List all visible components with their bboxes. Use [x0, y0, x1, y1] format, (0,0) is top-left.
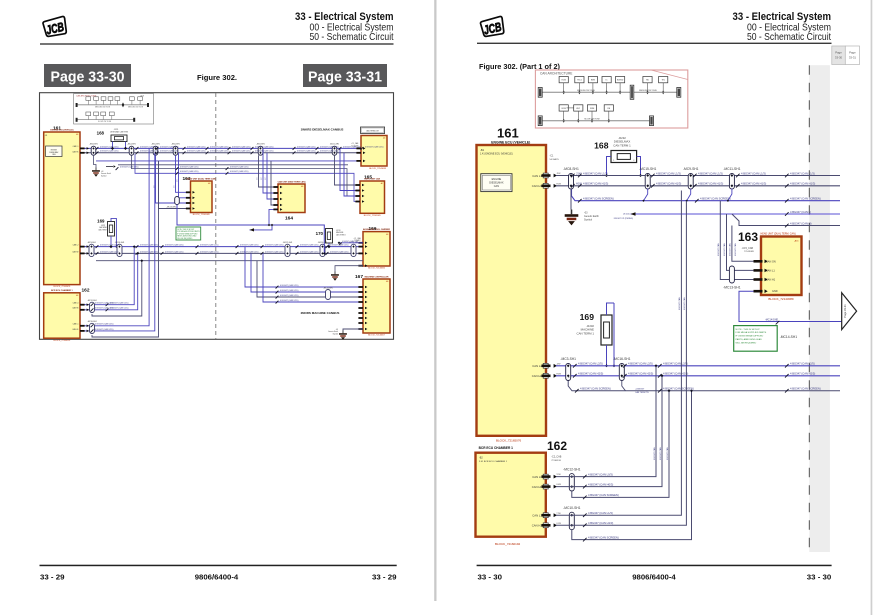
svg-text:Symbol: Symbol [333, 333, 339, 335]
svg-text:Page: Page [835, 51, 842, 55]
svg-text:4 BG347 (CAN L2/5): 4 BG347 (CAN L2/5) [200, 250, 219, 253]
wire CAN H1 bus (left) [80, 152, 361, 154]
svg-text:Symbol: Symbol [101, 175, 107, 177]
connector -MC10 (left 162b) [90, 323, 95, 333]
connector -MC5-SH1 (left top bus) [153, 146, 158, 155]
junction MC16 drop [613, 303, 615, 366]
pin arrows 161 top [80, 148, 85, 150]
svg-text:CAN H0: CAN H0 [72, 307, 78, 310]
page divider [434, 0, 436, 601]
svg-text:4 BG347 (CAN L2/5): 4 BG347 (CAN L2/5) [255, 150, 274, 153]
svg-text:BLOCK_72143065: BLOCK_72143065 [364, 215, 382, 217]
bundle to 164 [259, 155, 279, 187]
svg-text:4 BG347 (CAN L2/5): 4 BG347 (CAN L2/5) [140, 244, 159, 247]
svg-text:4 BG347 (CAN H2/5): 4 BG347 (CAN H2/5) [628, 372, 653, 376]
svg-text:-R231: -R231 [114, 129, 119, 131]
svg-text:4 BG347 (CAN L2/5): 4 BG347 (CAN L2/5) [300, 244, 319, 247]
figure frame [40, 93, 394, 340]
svg-text:BLOCK_72143067: BLOCK_72143067 [368, 335, 386, 337]
left page JCB logo + header [42, 16, 68, 38]
svg-text:4 BG347 (CAN H1/3): 4 BG347 (CAN H1/3) [741, 182, 766, 186]
svg-text:4 BG347 (CAN L2/5): 4 BG347 (CAN L2/5) [232, 145, 251, 148]
wire CAN H0 [556, 376, 662, 487]
wire screen L1 [572, 391, 692, 540]
svg-text:CAN L2: CAN L2 [532, 364, 542, 368]
svg-text:-MC16-SH1: -MC16-SH1 [613, 357, 631, 361]
svg-text:4 BG347 (CAN L1/3): 4 BG347 (CAN L1/3) [583, 171, 608, 175]
wire link to 164 bottom [269, 209, 278, 225]
svg-text:-MC14/GND: -MC14/GND [765, 318, 778, 321]
green note (left page) [176, 227, 201, 240]
svg-text:BLEND: BLEND [617, 80, 624, 82]
svg-text:SLOW CM YDKE: SLOW CM YDKE [98, 121, 112, 123]
svg-text:33 - Electrical System: 33 - Electrical System [295, 11, 394, 23]
svg-text:4 BG347 (CAN L2/5): 4 BG347 (CAN L2/5) [110, 307, 129, 310]
screen dip MC11 [728, 189, 732, 201]
pin 162 y525 [543, 523, 548, 528]
junction 168 drops [111, 147, 114, 150]
svg-text:Page 33-31: Page 33-31 [843, 304, 847, 318]
svg-text:-MC8-SH1: -MC8-SH1 [89, 144, 98, 146]
svg-text:4 BG347 (CAN L2/5): 4 BG347 (CAN L2/5) [165, 250, 184, 253]
svg-text:H1W: H1W [576, 182, 582, 186]
pin 162 y487 [543, 484, 548, 489]
svg-text:CAN H2: CAN H2 [72, 250, 78, 253]
bundle to 165 [335, 155, 361, 185]
block 164 (left page) [278, 184, 305, 213]
svg-text:4 BG347 (CAN L2/5): 4 BG347 (CAN L2/5) [120, 166, 139, 169]
svg-text:H2W: H2W [556, 373, 561, 375]
wire CAN H2 (right) [556, 375, 840, 377]
svg-text:4 BG347 (CAN H1/3): 4 BG347 (CAN H1/3) [588, 521, 613, 525]
screen dip MC9 [687, 189, 691, 201]
svg-text:4 BG347 (CAN H1/3): 4 BG347 (CAN H1/3) [583, 182, 608, 186]
svg-text:Figure 302.: Figure 302. [197, 73, 237, 82]
svg-text:PARTS, ABROGING LEAD: PARTS, ABROGING LEAD [736, 338, 763, 341]
svg-text:-MC15-SH1: -MC15-SH1 [639, 167, 657, 171]
svg-text:4 BG347 CAN: 4 BG347 CAN [734, 243, 737, 256]
svg-text:169: 169 [97, 218, 105, 223]
svg-text:4 BG347 (CAN L2/5): 4 BG347 (CAN L2/5) [187, 145, 206, 148]
svg-text:72143089: 72143089 [744, 251, 755, 253]
wire aux2 (right) [732, 214, 840, 226]
svg-text:-C1_CAB: -C1_CAB [351, 142, 359, 145]
connector -MC8-SH1 (left top bus) [91, 146, 96, 155]
svg-text:4 BG347 (CAN L2/5): 4 BG347 (CAN L2/5) [365, 145, 384, 148]
svg-text:4 BG347 (CAN SCREEN): 4 BG347 (CAN SCREEN) [700, 197, 731, 201]
svg-text:-R233: -R233 [336, 230, 340, 232]
svg-text:4 BG347 (CAN SCREEN): 4 BG347 (CAN SCREEN) [583, 197, 614, 201]
svg-text:4 BG347 (CAN L2/5): 4 BG347 (CAN L2/5) [160, 145, 179, 148]
wire screen2 (right) [568, 381, 840, 391]
svg-text:4 BG347 (CAN L2/5): 4 BG347 (CAN L2/5) [330, 244, 349, 247]
connector -MC13-SH1 [729, 266, 734, 283]
connector -MC15-SH1 [645, 174, 650, 190]
svg-text:-MC13-SH1: -MC13-SH1 [167, 207, 177, 209]
svg-text:4 BG347 (CAN L2/5): 4 BG347 (CAN L2/5) [210, 145, 229, 148]
svg-text:FOR MEGA SUPPLIED PARTS: FOR MEGA SUPPLIED PARTS [736, 331, 767, 334]
svg-text:CAN H1: CAN H1 [532, 184, 543, 188]
svg-text:4 BG347 (CAN L2/5): 4 BG347 (CAN L2/5) [280, 284, 299, 287]
svg-text:33 - Electrical System: 33 - Electrical System [733, 11, 832, 23]
svg-text:ADVANCED TOOL CARRIER: ADVANCED TOOL CARRIER [363, 228, 390, 231]
svg-text:4 BG347 (CAN L2/5): 4 BG347 (CAN L2/5) [300, 250, 319, 253]
pins 162 [80, 304, 85, 306]
svg-text:4 BG347 (CAN L2/5): 4 BG347 (CAN L2/5) [210, 150, 229, 153]
svg-text:4 BG347 CAN: 4 BG347 CAN [728, 243, 731, 256]
svg-text:ENGINE ECU (VEHICLE): ENGINE ECU (VEHICLE) [491, 140, 530, 144]
svg-text:4 BG347 (CAN L2/5): 4 BG347 (CAN L2/5) [200, 244, 219, 247]
junction 169 drop [109, 245, 112, 248]
ground G1 (left) [94, 155, 97, 167]
svg-text:50 - Schematic Circuit: 50 - Schematic Circuit [310, 32, 394, 43]
left footer [40, 565, 397, 567]
connector -MC3-SH1 [566, 364, 571, 381]
svg-text:4 BG347 CAN: 4 BG347 CAN [678, 297, 681, 310]
svg-text:4 BG347 (CAN L2/5): 4 BG347 (CAN L2/5) [330, 250, 349, 253]
svg-text:H1W: H1W [556, 183, 561, 185]
right page edge line [871, 0, 873, 615]
pins 164 [273, 186, 278, 188]
svg-text:4 BG347 CAN: 4 BG347 CAN [717, 243, 720, 256]
svg-text:4 BG347 (CAN L): 4 BG347 (CAN L) [790, 210, 811, 214]
screen dip MC15 [644, 189, 648, 201]
svg-text:BCR ECU CHAMBER 1: BCR ECU CHAMBER 1 [479, 446, 514, 450]
svg-text:CAN L1: CAN L1 [73, 145, 79, 148]
ECU block 162 (left page) [44, 293, 80, 338]
spur arrow (left) [106, 166, 113, 168]
svg-text:-B1: -B1 [45, 135, 48, 137]
svg-text:162: 162 [82, 288, 90, 294]
wire GND 163 [739, 291, 842, 321]
ground G2 (left) [335, 266, 363, 272]
svg-text:4 BG347 (CAN L2/5): 4 BG347 (CAN L2/5) [100, 250, 119, 253]
wire link y225 (left) [177, 205, 324, 254]
svg-text:-MC9-SH1: -MC9-SH1 [683, 167, 699, 171]
pin 163 y280 [754, 278, 763, 281]
wire CAN L2 (right) [556, 365, 840, 367]
svg-text:4 BG347 (CAN H2/5): 4 BG347 (CAN H2/5) [663, 372, 688, 376]
continuation gray band [809, 65, 830, 552]
svg-text:3.41 BCR ECU CHAMBER 1: 3.41 BCR ECU CHAMBER 1 [479, 460, 508, 463]
svg-text:BLOCK_72165076: BLOCK_72165076 [54, 286, 72, 288]
svg-text:4 BG347 (CAN L2/5): 4 BG347 (CAN L2/5) [230, 166, 249, 169]
connector -MC3-SH1 (left bus2) [89, 244, 94, 256]
svg-text:4 BG347 (CAN H2/5): 4 BG347 (CAN H2/5) [790, 372, 815, 376]
pins block A15 [356, 148, 361, 150]
svg-text:-A1: -A1 [380, 182, 383, 185]
pin 163 y270 [754, 269, 763, 272]
svg-text:4 BG347 (CAN L2/5): 4 BG347 (CAN L2/5) [297, 145, 316, 148]
connector -MC8-SH1 [569, 174, 574, 190]
svg-text:CAN H1: CAN H1 [72, 328, 78, 331]
wire CAN L2 bus (left) [80, 246, 363, 248]
green note (right) [734, 326, 778, 352]
svg-text:TEL: TEL [661, 80, 664, 82]
svg-text:4 BG347 CAN: 4 BG347 CAN [666, 447, 669, 460]
band dashed line [808, 65, 810, 552]
svg-text:4 BG347 (CAN L2/5): 4 BG347 (CAN L2/5) [240, 244, 259, 247]
pennant Page 33-31 [842, 293, 857, 330]
wire screen L0 [572, 391, 669, 498]
svg-text:-A1: -A1 [301, 185, 304, 188]
connector -MC11-SH1 [729, 174, 734, 190]
svg-text:4 BG347 (CAN SCREEN): 4 BG347 (CAN SCREEN) [580, 387, 611, 391]
svg-text:4 BG347 (CAN SCREEN): 4 BG347 (CAN SCREEN) [663, 387, 694, 391]
svg-text:BLOCK_72160192: BLOCK_72160192 [495, 542, 521, 546]
svg-text:4 BG347 (CAN L2/5): 4 BG347 (CAN L2/5) [255, 145, 274, 148]
branch run y173 (left) [135, 154, 360, 202]
svg-text:CAN ON: CAN ON [766, 260, 776, 263]
svg-text:163: 163 [738, 230, 758, 244]
svg-text:BLOCK_72143066: BLOCK_72143066 [368, 268, 386, 270]
svg-text:-MC8-SH1: -MC8-SH1 [563, 167, 579, 171]
svg-text:CAN H1: CAN H1 [72, 150, 78, 153]
svg-text:4 BG347 (CAN L2/5): 4 BG347 (CAN L2/5) [95, 328, 114, 331]
wire CAN H2 bus (left) [80, 252, 363, 254]
svg-text:4 BG347 (CAN H1/3): 4 BG347 (CAN H1/3) [698, 182, 723, 186]
svg-text:CAN L1: CAN L1 [532, 174, 542, 178]
right footer [477, 565, 832, 567]
svg-text:-A1: -A1 [208, 182, 211, 185]
svg-text:-MC10-SH1: -MC10-SH1 [318, 242, 328, 244]
svg-text:4 BG347 (CAN L2/5): 4 BG347 (CAN L2/5) [280, 294, 299, 297]
svg-text:CAN L0: CAN L0 [73, 302, 79, 305]
svg-text:-MC9-SH1: -MC9-SH1 [256, 144, 265, 146]
page tabs [832, 46, 846, 65]
svg-text:CAN L1: CAN L1 [73, 323, 79, 326]
wire screen bus A (left) [96, 160, 361, 162]
svg-text:CAN H2: CAN H2 [532, 374, 543, 378]
badge Page 33-31 [303, 64, 387, 87]
svg-text:4 BG347 (CAN L2/5): 4 BG347 (CAN L2/5) [578, 362, 603, 366]
svg-text:-MC3-SH1: -MC3-SH1 [560, 357, 576, 361]
svg-text:MEDIUM CM YDKE: MEDIUM CM YDKE [639, 90, 657, 92]
svg-text:4 BG347 (CAN L2/5): 4 BG347 (CAN L2/5) [100, 145, 119, 148]
svg-text:-MC11-SH1: -MC11-SH1 [723, 167, 740, 171]
wires 162 loop1 [80, 247, 134, 305]
svg-text:-A1: -A1 [76, 294, 79, 297]
svg-text:BLOCK_72143089: BLOCK_72143089 [193, 214, 211, 216]
connector -MC13-SH1 (left bus2) [351, 244, 356, 256]
svg-text:(S:D4): (S:D4) [623, 214, 630, 216]
svg-text:4 BG347 (CAN L0/3): 4 BG347 (CAN L0/3) [588, 472, 613, 476]
wire labels (left page) [91, 145, 384, 332]
svg-text:BLOCK_72143089: BLOCK_72143089 [369, 168, 387, 170]
svg-text:-B1: -B1 [480, 148, 485, 152]
legend box (left page) [361, 127, 385, 134]
pins 166 [358, 242, 363, 244]
svg-text:-MC14-SH1: -MC14-SH1 [323, 287, 333, 289]
inset CAN architecture [74, 94, 154, 124]
wire CAN H1 (right) [556, 185, 840, 187]
pin 161 y186 [543, 183, 548, 188]
svg-text:ENGINE ECU (VEHICLE): ENGINE ECU (VEHICLE) [50, 129, 73, 131]
svg-text:CAN TERM TN: CAN TERM TN [635, 391, 649, 394]
svg-text:J1W: J1W [556, 173, 560, 175]
pin 163 y291 [754, 290, 763, 293]
svg-text:169: 169 [580, 312, 595, 322]
svg-text:-MC6-SH1: -MC6-SH1 [171, 144, 180, 146]
svg-text:4 BG347 (CAN L2/5): 4 BG347 (CAN L2/5) [100, 244, 119, 247]
svg-text:-03: -03 [336, 329, 338, 331]
ground G4 (right) [570, 189, 572, 210]
svg-text:CAN L1: CAN L1 [532, 513, 542, 517]
spur arrow 2 (left) [250, 225, 273, 230]
svg-text:162: 162 [547, 439, 567, 453]
bundle to 167 [245, 247, 363, 287]
svg-text:CAN H1: CAN H1 [766, 279, 776, 282]
svg-text:33-30: 33-30 [835, 56, 843, 60]
svg-text:33 - 30: 33 - 30 [478, 572, 503, 581]
svg-text:170: 170 [316, 231, 324, 236]
svg-text:4 BG347 (CAN L2/5): 4 BG347 (CAN L2/5) [343, 145, 362, 148]
svg-text:EMS: EMS [591, 80, 596, 82]
svg-text:4 BG347 CAN: 4 BG347 CAN [659, 447, 662, 460]
svg-text:4 BG347 (CAN L2/5): 4 BG347 (CAN L2/5) [187, 150, 206, 153]
svg-text:BLOCK_72165076: BLOCK_72165076 [496, 439, 522, 443]
svg-text:4 BG347 (CAN L2/5): 4 BG347 (CAN L2/5) [320, 145, 339, 148]
svg-text:9806/6400-4: 9806/6400-4 [632, 572, 676, 581]
svg-text:T0W: T0W [556, 474, 560, 476]
ground G3 (left) [343, 329, 363, 331]
svg-text:BLOCK_72143089: BLOCK_72143089 [768, 297, 794, 301]
svg-text:-MC3-SH1: -MC3-SH1 [87, 242, 96, 244]
svg-text:HEAD UNIT (DUAL TERM CAN): HEAD UNIT (DUAL TERM CAN) [186, 177, 216, 180]
connector -MC12-SH1 (left bus2) [285, 244, 290, 256]
svg-text:4 BG347 (CAN L2/5): 4 BG347 (CAN L2/5) [320, 150, 339, 153]
svg-text:-MC16-SH1: -MC16-SH1 [115, 242, 125, 244]
svg-text:-MC11-SH1: -MC11-SH1 [330, 144, 339, 146]
connector -MC6-SH1 (left top bus) [173, 146, 178, 155]
svg-text:CAN TERM LIST: CAN TERM LIST [366, 129, 379, 132]
svg-text:-A1: -A1 [386, 280, 389, 283]
svg-text:1.41 ENGINE ECU (VEHICLE): 1.41 ENGINE ECU (VEHICLE) [480, 152, 513, 155]
connector -MC11-SH1 (left top bus) [332, 146, 337, 155]
ECU block 161 (left page) [44, 132, 80, 285]
svg-text:MEDIUM CM YDKE: MEDIUM CM YDKE [95, 106, 111, 108]
svg-text:4 BG347 (CAN L2/5): 4 BG347 (CAN L2/5) [160, 150, 179, 153]
svg-text:MEDIUM CM YDKE: MEDIUM CM YDKE [577, 90, 595, 92]
block 166 (left page) [363, 232, 390, 266]
svg-text:IF USING NEMA SUPPLIED: IF USING NEMA SUPPLIED [736, 335, 764, 338]
svg-text:CAN ARCHITECTURE: CAN ARCHITECTURE [540, 72, 572, 76]
svg-text:SLOW CM YDKE: SLOW CM YDKE [584, 119, 600, 121]
svg-text:-A1: -A1 [383, 137, 386, 140]
svg-text:4 BG347 (CAN L2/5): 4 BG347 (CAN L2/5) [140, 150, 159, 153]
svg-text:4 BG347 (CAN L2/5): 4 BG347 (CAN L2/5) [100, 150, 119, 153]
pin 162 y477 [543, 474, 548, 479]
wire screen1 (right) [572, 189, 841, 201]
svg-text:-C15_CAB: -C15_CAB [742, 247, 754, 250]
svg-text:4 BG347 (CAN L2/5): 4 BG347 (CAN L2/5) [663, 362, 688, 366]
svg-text:4 BG347 (CAN L2/5): 4 BG347 (CAN L2/5) [297, 150, 316, 153]
svg-text:168: 168 [97, 131, 105, 136]
svg-text:4 BG347 (CAN L2/5): 4 BG347 (CAN L2/5) [280, 289, 299, 292]
svg-text:33-31: 33-31 [849, 56, 857, 60]
svg-text:72160190: 72160190 [551, 460, 562, 462]
svg-text:CAN TERM 1: CAN TERM 1 [577, 331, 595, 335]
svg-text:CAN L2: CAN L2 [73, 243, 79, 246]
svg-text:4 BG347 (CAN H1/3): 4 BG347 (CAN H1/3) [790, 182, 815, 186]
connector -MC16-SH1 (left bus2) [117, 244, 122, 256]
svg-text:4 BG347 (CAN L2/5): 4 BG347 (CAN L2/5) [180, 170, 199, 173]
svg-text:CAN L0: CAN L0 [532, 475, 542, 479]
svg-text:CAN H1: CAN H1 [532, 524, 543, 528]
bundle to 163 [176, 155, 191, 192]
wire labels 162 [583, 472, 619, 541]
svg-text:4 BG347 (CAN H1/3): 4 BG347 (CAN H1/3) [656, 182, 681, 186]
svg-text:MACHINE CONTROLLER: MACHINE CONTROLLER [365, 275, 389, 278]
svg-text:4 BG347 (CAN L2/5): 4 BG347 (CAN L2/5) [95, 323, 114, 326]
svg-text:4 BG347 (CAN L2/5): 4 BG347 (CAN L2/5) [280, 299, 299, 302]
connector -MC16-SH1 [619, 364, 624, 381]
svg-text:4 BG347 (CAN L2/5): 4 BG347 (CAN L2/5) [230, 170, 249, 173]
svg-text:4 BG347 (CAN H): 4 BG347 (CAN H) [790, 221, 812, 225]
svg-text:TSC1: TSC1 [577, 80, 582, 82]
wire labels bus2 [573, 362, 821, 393]
svg-text:CAN: CAN [494, 185, 499, 188]
pin 161 y376 [543, 373, 548, 378]
svg-text:4 BG347 (CAN H0/3): 4 BG347 (CAN H0/3) [588, 482, 613, 486]
connector -MC14 (left 167) [326, 290, 331, 300]
wires 162 loop2 [80, 148, 149, 325]
svg-text:J2W: J2W [556, 363, 560, 365]
svg-text:9806/6400-4: 9806/6400-4 [195, 572, 239, 581]
pin 162 y515 [543, 513, 548, 518]
wire labels bus1 [571, 171, 821, 227]
svg-text:-A1: -A1 [386, 233, 389, 236]
svg-text:T1W: T1W [556, 513, 560, 515]
svg-text:4 BG347 (CAN L2/5): 4 BG347 (CAN L2/5) [265, 244, 284, 247]
svg-text:-C1_CAB: -C1_CAB [354, 237, 362, 240]
svg-text:CAB UNIT (SEAT TERM CAN): CAB UNIT (SEAT TERM CAN) [278, 180, 306, 183]
svg-text:-A1: -A1 [76, 133, 79, 136]
svg-text:-MC14-SH1: -MC14-SH1 [780, 335, 798, 339]
connector -MC12-SH1 [569, 474, 574, 491]
pin 161 y366 [543, 363, 548, 368]
svg-text:4 BG347 CAN: 4 BG347 CAN [723, 243, 726, 256]
svg-text:-A16: -A16 [794, 240, 799, 243]
block 165 (left page) [360, 181, 385, 213]
svg-text:-MC12-SH1: -MC12-SH1 [283, 242, 293, 244]
svg-text:CAN H0: CAN H0 [532, 485, 543, 489]
svg-text:-03: -03 [101, 171, 103, 173]
pin arrows 161 bottom [80, 246, 85, 248]
svg-text:-MC5-SH1: -MC5-SH1 [151, 144, 160, 146]
bus1 junction diamonds [92, 147, 94, 149]
wire screen bus B (left) [118, 164, 348, 166]
svg-text:168: 168 [594, 141, 609, 151]
svg-text:FROM TOP (PENNS): FROM TOP (PENNS) [614, 218, 634, 220]
connector -MC9-SH1 (left top bus) [258, 146, 263, 155]
connector -MC10-SH1 [569, 512, 574, 530]
svg-text:WILL BE REQUIRED: WILL BE REQUIRED [177, 238, 193, 240]
wire CAN L1b [556, 191, 681, 516]
svg-text:4 BG347 (CAN L1/3): 4 BG347 (CAN L1/3) [698, 171, 723, 175]
svg-text:1WKRS DIESELMAX CANBUS: 1WKRS DIESELMAX CANBUS [301, 128, 344, 132]
wire CAN L1 (right) [556, 175, 840, 177]
svg-text:-MC12-SH1: -MC12-SH1 [563, 467, 581, 471]
CAN architecture inset (right page) [535, 70, 687, 128]
connector -MC9-SH1 [688, 174, 693, 190]
junction 170 drop [327, 245, 330, 248]
wire screen2 bus (left) [96, 260, 363, 262]
connector -MC13 (left 163) [175, 197, 180, 205]
svg-text:4 BG347 (CAN L2/5): 4 BG347 (CAN L2/5) [140, 250, 159, 253]
svg-text:Page: Page [849, 51, 856, 55]
svg-text:4 BG347 (CAN SCREEN): 4 BG347 (CAN SCREEN) [588, 493, 619, 497]
